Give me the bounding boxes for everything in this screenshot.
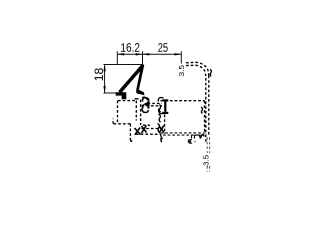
svg-text:3.5: 3.5 [179,65,186,77]
clip X mark bead right [159,126,164,134]
big rectangle right edge [204,101,206,134]
clip X mark lower left [135,126,165,135]
curls at bottom right of rectangle [199,135,204,137]
dash below left foot [135,98,139,100]
bottom left short vertical [160,134,162,140]
extension line bottom of 18 [104,92,117,94]
lower shelf left hook [112,119,115,124]
tiny marks near bottom of rectangle [188,135,202,143]
profile top edge outer [186,62,209,75]
arrow bottom of 18 [103,86,105,93]
extension line right x=181.3 [180,51,182,63]
extension line top of 18 / gasket top edge [104,64,144,66]
bead right end curl [159,105,160,113]
curl below rect bottom left [161,137,163,143]
extension line middle x=142.5 [142,51,144,64]
bead inner dash pair [143,124,150,126]
dashed outlines group [113,62,210,171]
dimension line 16.2 [117,53,142,55]
gasket diagonal stroke [120,66,143,93]
svg-text:25: 25 [158,41,168,55]
arrow right of 16.2 [136,53,143,55]
big rectangle bottom edge outer [161,132,205,134]
big rectangle bottom edge inner [161,134,205,136]
bead channel bottom line [142,128,165,130]
curl right of rounded corner [210,69,211,76]
arrow left of 25 [143,53,150,55]
lower shelf line [114,123,131,125]
left box left edge [117,101,119,124]
arrow right of 25 [175,53,182,55]
gasket right bar [136,65,144,91]
profile top edge inner [186,65,206,78]
big rectangle top edge [161,100,205,102]
bead left end curl [142,105,145,109]
profile outer right wall [208,76,210,136]
arrow top of 18 [103,65,105,72]
bead channel left edge [140,100,142,126]
bead channel top double line 1 [148,102,163,104]
left column curl lower [158,124,160,133]
clip X mark bead left [142,126,147,134]
curl on inner wall [201,107,203,114]
profile lower right dashes pair [206,137,208,153]
small mark euro-like below [188,140,192,143]
dimension line 25 [143,53,182,55]
lower stem vertical [129,124,131,140]
left column curl upper [159,114,161,122]
lower stem hook [130,140,134,141]
left box top edge [118,100,136,102]
svg-text:3.5: 3.5 [204,155,211,166]
dimension line 18 [104,65,106,93]
svg-text:16.2: 16.2 [120,41,140,55]
lower connect dashes [136,133,160,135]
I-beam solid mark [162,99,168,114]
arrow left of 16.2 [117,53,124,55]
S-curl right of gasket foot [142,97,150,100]
T-left bottom bracket [142,108,148,113]
bead channel top double line 2 [142,105,163,107]
T-left top bracket [142,98,148,102]
extension line left x=117.3 [116,51,118,64]
profile lowest dashes pair [206,166,208,172]
big rectangle left edge [164,115,166,135]
gasket right foot [136,90,144,96]
I-beam left curl bottom [159,109,164,114]
T-left stem [148,100,150,108]
small curls thin [135,69,212,142]
left box right edge [135,101,137,121]
profile inner right wall [205,78,207,143]
I-beam left curl top [158,98,163,102]
gasket left foot [116,92,127,99]
T-left arrow mark [143,101,149,107]
